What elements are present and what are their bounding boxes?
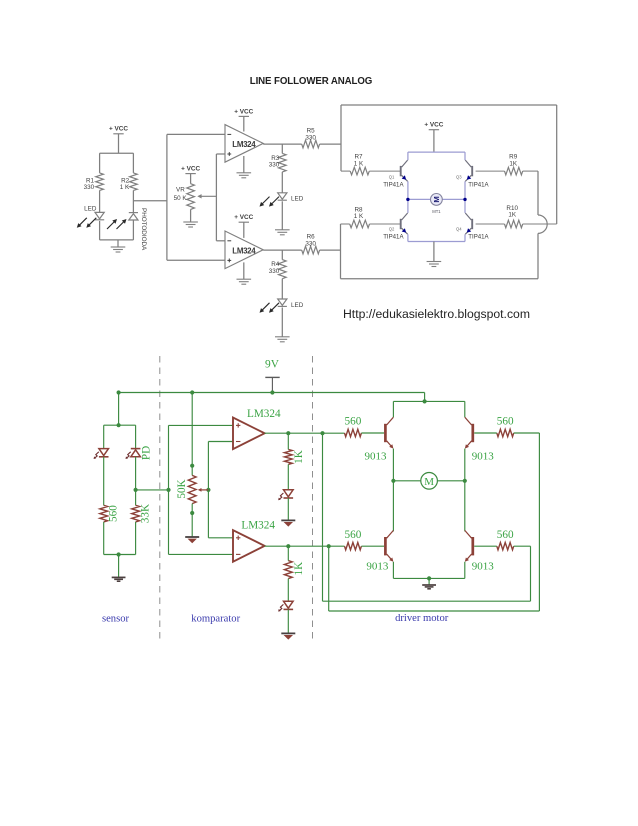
transistor Q6 9013	[465, 417, 494, 462]
svg-text:Http://edukasielektro.blogspot: Http://edukasielektro.blogspot.com	[343, 307, 530, 321]
wire outer loop left vertical	[340, 105, 342, 171]
svg-text:560: 560	[345, 416, 362, 428]
divider dashed line 1	[159, 356, 161, 641]
svg-text:LED: LED	[291, 196, 304, 203]
wire Q6 base	[474, 432, 497, 434]
wire outer loop top rail	[341, 104, 557, 106]
svg-text:MT1: MT1	[432, 209, 441, 214]
node pot bottom	[190, 511, 194, 515]
svg-text:TIP41A: TIP41A	[383, 181, 404, 188]
svg-text:Q4: Q4	[456, 227, 462, 232]
resistor R8	[341, 207, 401, 228]
resistor R7	[341, 154, 400, 175]
node wiper net tee	[206, 488, 210, 492]
ground (U2)	[237, 278, 252, 280]
svg-text:PD: PD	[141, 446, 153, 460]
svg-text:LM324: LM324	[247, 408, 281, 420]
svg-text:33K: 33K	[139, 504, 151, 523]
wire A2 cross bottom	[329, 610, 540, 612]
wire R5 to H-bridge loop	[320, 143, 341, 145]
LED D1 (emitter)	[94, 449, 109, 459]
wire 1K to LED	[287, 579, 289, 602]
wire to U1 non-inverting input	[216, 153, 225, 155]
wire U2 to ground	[243, 262, 245, 279]
svg-text:+ VCC: + VCC	[181, 166, 200, 173]
wire R3 drop	[281, 144, 283, 153]
wire motor right	[442, 198, 465, 200]
motor MT1	[431, 194, 443, 214]
wire motor left	[408, 198, 431, 200]
ground (LED1)	[275, 229, 290, 231]
svg-text:+ VCC: + VCC	[234, 108, 253, 115]
wire R4 drop	[281, 250, 283, 260]
svg-text:Q1: Q1	[389, 174, 395, 179]
svg-text:TIP41A: TIP41A	[383, 234, 404, 241]
power +VCC (VR)	[181, 166, 200, 174]
potentiometer VR 50K	[174, 184, 217, 210]
node sensor rect bottom	[117, 552, 121, 556]
svg-text:LM324: LM324	[232, 246, 256, 255]
wire A2 cross rise	[538, 433, 540, 611]
resistor R5	[302, 128, 320, 148]
resistor 33K	[132, 504, 152, 523]
wire sensor to ground	[118, 555, 120, 578]
svg-text:VR: VR	[176, 187, 185, 194]
power +VCC (U2)	[234, 214, 253, 222]
wire Q6 collector rise	[464, 401, 466, 417]
wire to A2 non-inverting	[208, 537, 233, 539]
svg-text:TIP41A: TIP41A	[468, 234, 489, 241]
svg-text:+ VCC: + VCC	[424, 122, 443, 129]
svg-text:1K: 1K	[508, 212, 517, 219]
ground (A1 LED)	[281, 519, 295, 521]
wire right branch upper	[132, 153, 134, 173]
wire A1 1K drop	[287, 433, 289, 449]
wire U1 output	[263, 143, 302, 145]
transistor Q1 TIP41A	[383, 160, 407, 188]
wire sensor left upper	[103, 425, 105, 448]
wire R3 to LED1	[281, 172, 283, 193]
wire outer loop right vertical	[556, 105, 558, 224]
svg-text:50 K: 50 K	[174, 195, 188, 202]
svg-text:330: 330	[269, 162, 280, 169]
wire left branch lower	[99, 221, 101, 240]
wire Q6 emitter drop	[464, 449, 466, 481]
power +VCC (sensor)	[109, 126, 128, 134]
wire 560 to Q5 base	[361, 432, 384, 434]
wire pot to ground	[191, 504, 193, 537]
power +VCC (U1)	[234, 108, 253, 116]
wire VCC to VR	[190, 174, 192, 184]
wire motor line left	[393, 480, 420, 482]
svg-text:+ VCC: + VCC	[109, 126, 128, 133]
node A2 out cross tap	[327, 544, 331, 548]
svg-text:LINE FOLLOWER ANALOG: LINE FOLLOWER ANALOG	[250, 76, 373, 87]
wire sensor left mid	[103, 457, 105, 506]
node bridge 9V junction	[423, 399, 427, 403]
wire A1 output	[265, 432, 345, 434]
LED1 (indicator)	[260, 193, 304, 207]
node bridge ground junction	[427, 576, 431, 580]
resistor R4	[269, 260, 286, 279]
resistor 1K (A1)	[284, 449, 304, 464]
node sensor vcc tap	[117, 390, 121, 394]
svg-text:560: 560	[107, 505, 119, 522]
wire to U2 inverting input	[216, 240, 225, 242]
node bridge right motor terminal	[463, 198, 466, 201]
wire R9 vertical with hop	[537, 171, 539, 215]
wire wiper net vertical	[207, 442, 209, 538]
wire bridge left rail segments	[407, 152, 409, 160]
svg-text:1 K: 1 K	[120, 184, 130, 191]
node A1 out cross tap	[320, 431, 324, 435]
ground (U1)	[237, 172, 252, 174]
wire 1K to LED	[287, 464, 289, 489]
resistor 1K (A2)	[284, 561, 304, 579]
wire U1 to ground	[243, 156, 245, 173]
wire bridge to ground	[433, 242, 435, 262]
photodiode PHOTODIODA	[107, 208, 147, 251]
motor M	[421, 473, 438, 490]
ground (driver net)	[422, 584, 436, 586]
wire 9V rail	[119, 392, 425, 394]
transistor Q4 TIP41A	[456, 213, 490, 241]
wire A1 cross rise	[530, 546, 532, 601]
op-amp U1 LM324	[225, 125, 263, 163]
wire bridge to ground	[428, 578, 430, 584]
supply 9V	[265, 359, 280, 393]
wire bridge mid-right drop	[464, 481, 466, 532]
svg-text:1K: 1K	[509, 160, 518, 167]
wire right branch mid	[132, 190, 134, 212]
svg-text:560: 560	[497, 529, 514, 541]
node bridge left motor terminal	[406, 198, 409, 201]
op-amp A1 LM324	[233, 408, 281, 449]
wire left rail (sensor net)	[166, 134, 168, 260]
node motor left	[391, 479, 395, 483]
wire R4 to LED2	[281, 279, 283, 299]
wire Q5 collector rise	[392, 401, 394, 417]
LED (A2 indicator)	[278, 601, 293, 611]
transistor Q7 9013	[366, 530, 393, 572]
transistor Q3 TIP41A	[456, 160, 490, 188]
resistor R6	[302, 234, 320, 254]
resistor 560 (sensor)	[100, 505, 120, 522]
wire to A1 non-inverting	[169, 424, 234, 426]
svg-text:LM324: LM324	[232, 140, 256, 149]
wire sensor rect bottom	[104, 554, 136, 556]
transistor Q2 TIP41A	[383, 213, 407, 241]
wire A2 output	[265, 545, 345, 547]
svg-text:LED: LED	[84, 205, 97, 212]
svg-text:1K: 1K	[293, 562, 305, 576]
wire LED to ground	[287, 498, 289, 520]
wire bridge top rail (driver)	[393, 400, 464, 402]
wire left branch mid	[99, 190, 101, 212]
wire to U2 non-inverting input	[167, 259, 225, 261]
resistor R10	[476, 205, 557, 228]
wire sensor net vertical	[168, 425, 170, 554]
svg-text:1 K: 1 K	[354, 213, 364, 220]
svg-text:1 K: 1 K	[354, 160, 364, 167]
wire right branch lower	[132, 220, 134, 240]
wire VR to ground	[190, 209, 192, 222]
wire sensor right lower	[135, 522, 137, 555]
wire bottom return rail	[341, 278, 539, 280]
resistor 560 (top-left)	[345, 416, 362, 437]
wire bridge right rail segments	[464, 152, 466, 160]
wire U2 output	[263, 249, 302, 251]
ground (VR)	[183, 221, 198, 223]
resistor R2	[120, 173, 137, 191]
wire sensor to ground	[117, 240, 119, 247]
svg-text:Q3: Q3	[456, 174, 462, 179]
wire R6 to R8 node	[320, 249, 341, 251]
svg-text:Q2: Q2	[389, 227, 395, 232]
resistor R3	[269, 153, 286, 172]
resistor R1	[84, 173, 104, 191]
svg-text:330: 330	[84, 184, 95, 191]
divider dashed line 2	[312, 356, 314, 641]
wire sensor signal out	[136, 489, 169, 491]
svg-text:9013: 9013	[472, 560, 495, 572]
wire bridge bottom rail	[408, 241, 465, 243]
node pot rail tap	[190, 390, 194, 394]
transistor Q5 9013	[365, 417, 394, 462]
wire VCC to U1	[243, 116, 245, 131]
svg-text:LED: LED	[291, 302, 304, 309]
wire 560 to cross	[514, 545, 531, 547]
resistor 560 (top-right)	[497, 416, 514, 437]
wire motor line right	[437, 480, 464, 482]
ground (sensor net)	[112, 576, 126, 578]
svg-text:1K: 1K	[293, 450, 305, 464]
wire 9V rail drop to bridge	[424, 393, 426, 402]
LED (sensor)	[77, 205, 104, 228]
wire LED1 to ground	[281, 201, 283, 230]
wire bridge top rail	[408, 151, 465, 153]
op-amp A2 LM324	[233, 520, 275, 562]
svg-text:9013: 9013	[365, 451, 388, 463]
svg-text:330: 330	[305, 240, 316, 247]
wire VCC to U2	[243, 222, 245, 238]
svg-text:9013: 9013	[366, 560, 389, 572]
wire sensor output	[133, 200, 167, 202]
wire sensor right mid	[135, 457, 137, 506]
wire Q8 emitter drop	[464, 562, 466, 579]
wire mid rail (VR wiper net)	[215, 154, 217, 241]
wire Q8 base	[474, 545, 497, 547]
potentiometer 50K	[176, 475, 209, 503]
wire sensor rect top	[100, 152, 134, 154]
svg-text:+ VCC: + VCC	[234, 214, 253, 221]
wire LED2 to ground	[281, 308, 283, 337]
ground (A2 LED)	[281, 632, 295, 634]
wire 560 to cross	[514, 432, 540, 434]
wire VCC to sensor rect	[118, 134, 120, 153]
wire 9V to pot	[191, 393, 193, 476]
svg-text:driver motor: driver motor	[395, 613, 449, 624]
svg-text:sensor: sensor	[102, 614, 130, 625]
wire sensor rect bottom	[100, 239, 134, 241]
ground (LED2)	[275, 336, 290, 338]
svg-text:50K: 50K	[176, 479, 188, 498]
node pot top	[190, 464, 194, 468]
ground (pot)	[185, 536, 199, 538]
op-amp U2 LM324	[225, 231, 263, 269]
wire Q7 emitter drop	[392, 562, 394, 579]
resistor 560 (bottom-left)	[345, 529, 362, 550]
svg-text:560: 560	[345, 529, 362, 541]
node motor right	[463, 479, 467, 483]
svg-text:330: 330	[305, 134, 316, 141]
wire VCC to bridge rail	[433, 130, 435, 152]
node A1 out LED tap	[286, 431, 290, 435]
wire sensor right upper	[135, 425, 137, 448]
wire R8 node vertical	[340, 224, 342, 279]
wire to A2 inverting	[169, 553, 234, 555]
node 9V rail junction	[270, 390, 274, 394]
wire A2 1K drop	[287, 546, 289, 560]
wire A2 cross drop	[328, 546, 330, 611]
svg-text:TIP41A: TIP41A	[468, 181, 489, 188]
svg-text:560: 560	[497, 416, 514, 428]
wire sensor rect top	[104, 424, 136, 426]
svg-text:330: 330	[269, 268, 280, 275]
svg-text:komparator: komparator	[191, 614, 240, 625]
resistor R9	[476, 154, 538, 175]
svg-text:M: M	[424, 476, 434, 488]
LED2 (indicator)	[260, 299, 304, 313]
transistor Q8 9013	[465, 530, 494, 572]
wire left branch upper	[99, 153, 101, 173]
wire to A1 inverting	[208, 441, 233, 443]
wire bridge bottom rail (driver)	[393, 577, 464, 579]
wire sensor feed	[118, 393, 120, 426]
photodiode PD	[126, 446, 153, 460]
resistor 560 (bottom-right)	[497, 529, 514, 550]
wire A1 cross bottom	[323, 600, 531, 602]
wire LED to ground	[287, 609, 289, 633]
node sensor rect top	[117, 423, 121, 427]
svg-text:M: M	[432, 196, 441, 202]
node A2 out LED tap	[286, 544, 290, 548]
node sensor output	[134, 488, 138, 492]
wire A1 cross drop	[322, 433, 324, 601]
ground (sensor)	[111, 246, 126, 248]
wire Q5 emitter drop	[392, 449, 394, 481]
wire sensor left lower	[103, 522, 105, 555]
svg-text:9013: 9013	[472, 451, 495, 463]
power +VCC (H-bridge)	[424, 122, 443, 130]
svg-text:PHOTODIODA: PHOTODIODA	[140, 208, 147, 251]
svg-text:LM324: LM324	[241, 520, 275, 532]
ground (H-bridge)	[427, 261, 442, 263]
LED (A1 indicator)	[278, 490, 293, 500]
node sensor net tee	[166, 488, 170, 492]
wire bridge mid-left drop	[392, 481, 394, 532]
svg-text:9V: 9V	[265, 359, 280, 371]
wire 560 to Q7 base	[361, 545, 384, 547]
wire to U1 inverting input	[167, 133, 225, 135]
